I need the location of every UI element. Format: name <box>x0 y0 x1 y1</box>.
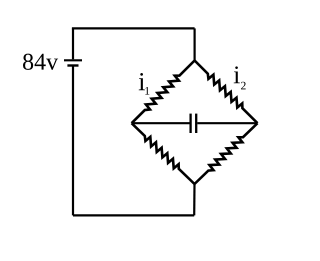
label i1 subscript 1 <box>145 87 149 95</box>
label i1 <box>139 73 145 90</box>
capacitor C1 left plate <box>189 114 191 133</box>
resistor R2 <box>195 61 258 124</box>
label 84v <box>23 54 33 70</box>
capacitor C1 right plate <box>195 114 197 133</box>
wire left battery top <box>72 28 74 59</box>
wire bottom <box>73 214 194 216</box>
wire top <box>72 27 195 29</box>
wire right-bottom stub <box>193 184 196 215</box>
wire capacitor right lead <box>197 122 257 124</box>
resistor R1 <box>132 61 195 124</box>
wire capacitor left lead <box>132 122 190 124</box>
battery B1 short plate <box>67 64 78 66</box>
label i2 subscript 2 <box>241 82 246 90</box>
wire left battery bottom <box>72 67 74 216</box>
label i2 <box>234 66 240 83</box>
resistor R3 <box>132 123 195 184</box>
battery B1 long plate <box>64 59 82 61</box>
wire right-top stub <box>194 28 196 60</box>
resistor R4 <box>195 123 258 184</box>
